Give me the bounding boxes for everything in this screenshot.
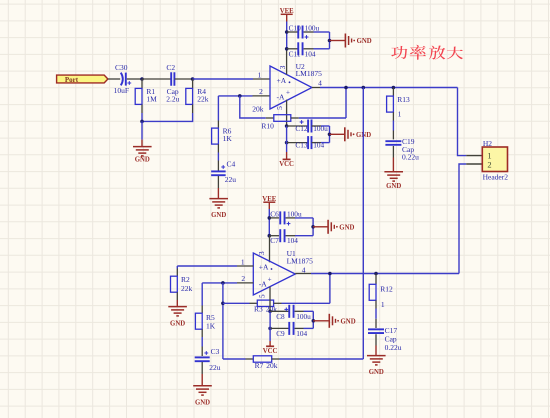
svg-text:R10: R10	[261, 121, 274, 130]
svg-text:R13: R13	[397, 95, 410, 104]
svg-text:C13: C13	[295, 141, 308, 150]
svg-text:C4: C4	[227, 159, 236, 168]
svg-text:1: 1	[258, 70, 262, 79]
svg-text:-A: -A	[259, 279, 267, 288]
svg-text:22u: 22u	[225, 175, 237, 184]
svg-text:2.2u: 2.2u	[166, 95, 179, 104]
svg-text:22k: 22k	[181, 284, 193, 293]
svg-text:R3: R3	[254, 304, 263, 313]
svg-text:104: 104	[313, 141, 324, 150]
svg-text:R12: R12	[380, 284, 393, 293]
svg-text:+A: +A	[259, 263, 269, 272]
svg-text:104: 104	[296, 329, 307, 338]
svg-text:LM1875: LM1875	[296, 69, 323, 78]
svg-text:104: 104	[287, 236, 298, 245]
svg-text:100u: 100u	[313, 124, 328, 133]
svg-text:5: 5	[258, 294, 267, 298]
svg-text:104: 104	[305, 50, 316, 59]
svg-text:C9: C9	[276, 329, 285, 338]
svg-text:-A: -A	[277, 92, 285, 101]
svg-text:R7: R7	[255, 361, 264, 370]
svg-text:C10: C10	[289, 23, 302, 32]
svg-text:5: 5	[275, 106, 284, 110]
svg-text:GND: GND	[339, 224, 354, 231]
svg-text:1K: 1K	[223, 134, 233, 143]
svg-text:R2: R2	[181, 275, 190, 284]
svg-text:3: 3	[278, 65, 287, 69]
svg-text:R5: R5	[206, 313, 215, 322]
svg-text:3: 3	[257, 251, 266, 255]
svg-text:GND: GND	[195, 400, 210, 407]
svg-text:GND: GND	[211, 212, 226, 219]
svg-text:LM1875: LM1875	[287, 256, 314, 265]
svg-text:C12: C12	[295, 124, 308, 133]
svg-text:C3: C3	[211, 347, 220, 356]
svg-text:1: 1	[398, 110, 402, 119]
svg-text:1K: 1K	[206, 322, 216, 331]
svg-text:C6: C6	[270, 210, 279, 219]
svg-text:H2: H2	[483, 139, 492, 148]
svg-text:GND: GND	[170, 320, 185, 327]
svg-text:10uF: 10uF	[114, 86, 129, 95]
svg-text:VCC: VCC	[279, 161, 294, 168]
svg-text:C30: C30	[115, 63, 128, 72]
svg-text:100u: 100u	[296, 312, 311, 321]
svg-text:GND: GND	[135, 156, 150, 163]
svg-text:GND: GND	[357, 38, 372, 45]
svg-text:+A: +A	[277, 76, 287, 85]
svg-text:20k: 20k	[252, 104, 264, 113]
svg-text:22k: 22k	[197, 95, 209, 104]
svg-text:2: 2	[259, 87, 263, 96]
svg-text:C8: C8	[276, 312, 285, 321]
svg-text:1M: 1M	[146, 95, 157, 104]
svg-text:C7: C7	[270, 236, 279, 245]
svg-text:GND: GND	[341, 318, 356, 325]
svg-text:GND: GND	[386, 183, 401, 190]
svg-text:Port: Port	[65, 76, 79, 84]
svg-text:C11: C11	[289, 50, 301, 59]
svg-text:0.22u: 0.22u	[385, 343, 402, 352]
svg-text:0.22u: 0.22u	[402, 152, 419, 161]
svg-text:1: 1	[241, 257, 245, 266]
svg-text:+: +	[286, 89, 290, 97]
svg-text:100u: 100u	[287, 210, 302, 219]
svg-text:20k: 20k	[266, 361, 278, 370]
svg-text:Header2: Header2	[483, 173, 509, 182]
svg-text:C2: C2	[166, 63, 175, 72]
svg-text:22u: 22u	[209, 363, 221, 372]
svg-text:4: 4	[318, 78, 322, 87]
svg-text:1: 1	[381, 300, 385, 309]
svg-text:GND: GND	[369, 369, 384, 376]
svg-text:2: 2	[241, 274, 245, 283]
svg-text:100u: 100u	[305, 23, 320, 32]
svg-text:2: 2	[487, 159, 491, 169]
svg-text:VCC: VCC	[263, 348, 278, 355]
svg-text:+: +	[268, 275, 272, 283]
